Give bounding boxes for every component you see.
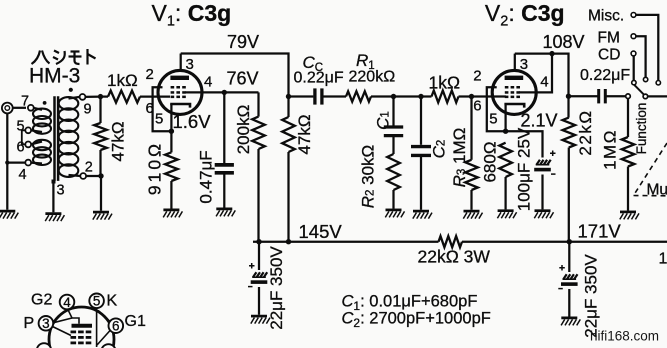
wire plate node to output cap xyxy=(569,95,598,97)
wire 910 to ground xyxy=(170,181,172,209)
svg-text:4: 4 xyxy=(19,167,27,183)
capacitor CC 0.22uF xyxy=(313,88,316,104)
wire cathode to bypass cap xyxy=(506,131,543,157)
input jack J1 xyxy=(2,103,13,114)
svg-text:V2: C3g: V2: C3g xyxy=(485,0,565,30)
basing pin 5 circle xyxy=(89,294,104,309)
capacitor 0.22uF output coupling xyxy=(597,89,600,103)
wire 79V plate rail xyxy=(181,54,289,97)
selector wiper arm xyxy=(634,85,643,94)
svg-text:0.47μF: 0.47μF xyxy=(197,150,216,203)
V1 pin 5 cathode lead xyxy=(170,104,172,152)
svg-text:0.22μF: 0.22μF xyxy=(580,67,630,84)
ground (C2) xyxy=(413,210,429,213)
basing pin 3 circle xyxy=(39,316,54,331)
terminal 2 xyxy=(80,173,86,179)
wire jack ground drop xyxy=(6,113,8,209)
ground (V2 cathode) xyxy=(498,209,514,212)
capacitor 22uF 350V filter (171V) xyxy=(559,265,565,271)
svg-text:220kΩ: 220kΩ xyxy=(349,69,396,86)
svg-text:G2: G2 xyxy=(31,292,52,309)
basing lead pin3 xyxy=(53,318,72,323)
svg-text:Misc.: Misc. xyxy=(588,8,624,25)
svg-text:R3 1MΩ: R3 1MΩ xyxy=(449,128,468,188)
wire C2 node to 1k xyxy=(421,95,432,97)
transformer T1 secondary phasing dot xyxy=(69,88,73,92)
resistor 680 cathode V2 xyxy=(499,143,512,177)
stub winding to terminal 9 xyxy=(69,97,80,99)
ground (R2) xyxy=(386,209,402,212)
resistor 47k secondary load xyxy=(94,123,107,150)
capacitor 22uF 350V filter (145V) xyxy=(249,263,255,269)
resistor 47k plate load V1 xyxy=(282,117,295,152)
stub winding to terminal 2 xyxy=(69,175,81,176)
wire plate node to CC xyxy=(289,95,314,97)
stub terminal 5 to winding xyxy=(31,130,42,132)
svg-text:1kΩ: 1kΩ xyxy=(107,71,138,90)
V2 pin 2/shield bracket xyxy=(487,87,506,131)
transformer T1 primary phasing dot xyxy=(43,101,47,105)
wire CD to contact xyxy=(633,56,635,80)
basing pin 2 circle (cut off) xyxy=(37,343,52,348)
wire terminal 9 to node xyxy=(85,95,100,98)
svg-text:R2 30kΩ: R2 30kΩ xyxy=(358,145,377,209)
svg-text:2: 2 xyxy=(473,68,481,85)
ground (V2 bypass) xyxy=(535,209,551,212)
basing lead pin6 lower xyxy=(97,330,111,345)
svg-text:Mu: Mu xyxy=(647,182,667,199)
transformer T1 secondary winding xyxy=(59,97,79,110)
resistor 1M selector load xyxy=(622,137,635,167)
wire 1k to V1 grid xyxy=(140,95,170,97)
V2 pin 5 cathode lead xyxy=(504,104,506,131)
svg-text:6: 6 xyxy=(112,319,120,334)
wire 145V rail to filter cap xyxy=(258,242,260,270)
wire 171V rail xyxy=(462,241,667,243)
wire node to 1k resistor xyxy=(101,95,109,97)
ground (secondary return) xyxy=(93,211,109,214)
jumper terminal 5 to 6 xyxy=(22,130,26,144)
wire FM to contact xyxy=(636,36,646,77)
svg-text:47kΩ: 47kΩ xyxy=(109,121,128,161)
basing lead pin3 lower xyxy=(53,327,72,336)
tube basing diagram envelope xyxy=(49,307,114,348)
wire screen node corner down xyxy=(257,92,259,116)
node 145V filter junction xyxy=(256,239,261,244)
basing pin 6 circle xyxy=(109,318,124,333)
wire R load to terminal2 node xyxy=(99,150,101,176)
node C2 top xyxy=(418,94,423,99)
wire screen node to bypass cap xyxy=(223,92,225,163)
wire 171V rail to filter cap xyxy=(568,242,570,272)
svg-text:1.6V: 1.6V xyxy=(173,111,212,132)
input terminal Misc xyxy=(631,13,636,18)
basing pin 4 circle xyxy=(60,295,75,310)
svg-text:V1: C3g: V1: C3g xyxy=(152,0,232,30)
wire 1k to R3 node xyxy=(459,95,472,97)
input terminal FM xyxy=(631,34,636,39)
wire 200k to 145V rail xyxy=(257,149,259,242)
wire R2 to ground xyxy=(392,190,394,209)
svg-text:76V: 76V xyxy=(227,68,259,88)
ground (171V filter) xyxy=(561,317,577,320)
node V1 screen junction xyxy=(222,90,227,95)
node R3 top xyxy=(469,94,474,99)
V1 pin 3 plate lead xyxy=(180,54,182,71)
selector throw contact CD xyxy=(632,80,636,84)
wire C2 node down xyxy=(420,97,422,145)
svg-text:680Ω: 680Ω xyxy=(481,141,500,182)
svg-text:G1: G1 xyxy=(125,313,146,330)
svg-text:FM: FM xyxy=(598,30,620,47)
wire 1M to ground xyxy=(627,167,629,211)
node V1 plate/coupling junction xyxy=(286,94,291,99)
svg-text:C2: 2700pF+1000pF: C2: 2700pF+1000pF xyxy=(342,310,491,331)
wire terminal 2 to node xyxy=(86,175,101,177)
wire jack to terminal 7 xyxy=(13,107,26,109)
ground (selector load) xyxy=(620,211,636,214)
wire filter cap to ground xyxy=(568,289,570,317)
ground (145V filter) xyxy=(251,315,267,318)
wire node A to C1 xyxy=(392,97,394,126)
wire C1 to R2 xyxy=(392,136,394,154)
svg-text:171V: 171V xyxy=(578,221,622,242)
resistor R1 220k xyxy=(346,91,371,101)
svg-text:100μF 25V: 100μF 25V xyxy=(515,127,534,211)
terminal 3 shield tap xyxy=(52,180,56,184)
node screen tie on 108V rail xyxy=(549,51,554,56)
node plate load junction (145V) xyxy=(286,239,291,244)
capacitor C2 xyxy=(411,145,431,148)
basing lead pin6 upper xyxy=(98,311,110,322)
svg-text:22kΩ: 22kΩ xyxy=(576,109,595,155)
basing lead pin4 xyxy=(68,309,79,324)
selector throw contact FM xyxy=(643,77,647,81)
capacitor 100uF 25V cathode bypass xyxy=(550,151,556,157)
svg-text:22μF 350V: 22μF 350V xyxy=(267,246,286,330)
resistor 1k grid stopper V2 xyxy=(432,91,459,103)
wire node A to C2 node xyxy=(394,95,422,97)
tube V1 (C3g pentode) xyxy=(158,70,202,114)
resistor 22k 3W dropper xyxy=(439,236,463,247)
svg-text:3: 3 xyxy=(186,56,194,73)
basing lead pin5 xyxy=(96,308,98,347)
terminal 5 xyxy=(25,127,31,133)
svg-text:6: 6 xyxy=(17,140,25,156)
wire bypass to ground xyxy=(541,175,543,210)
resistor 22k plate load V2 xyxy=(563,118,576,148)
ground (transformer shield) xyxy=(45,212,61,215)
svg-text:3: 3 xyxy=(57,183,65,199)
resistor 200k screen feed xyxy=(252,117,265,149)
svg-text:4: 4 xyxy=(540,74,548,91)
wire output cap to selector xyxy=(606,95,625,97)
wire bypass cap to ground xyxy=(223,174,225,207)
svg-text:5: 5 xyxy=(489,111,497,128)
svg-text:Function: Function xyxy=(634,103,649,155)
ground (V1 cathode) xyxy=(163,209,179,212)
svg-text:HM-3: HM-3 xyxy=(29,65,80,88)
svg-text:1: 1 xyxy=(659,251,667,268)
wire to V2 grid xyxy=(472,95,507,97)
wire C2 to ground xyxy=(420,155,422,209)
dashed gang link to muting switch xyxy=(634,143,667,196)
wire pole A down to 1M xyxy=(627,99,629,137)
basing internal plate bar xyxy=(72,324,93,328)
selector throw contact Misc xyxy=(656,81,660,85)
svg-text:2.1V: 2.1V xyxy=(521,111,558,131)
node secondary top xyxy=(98,94,103,99)
wire 145V rail xyxy=(253,241,439,243)
wire R3 to ground xyxy=(470,190,472,210)
node A (EQ network top) xyxy=(391,94,396,99)
node jack/terminal4 junction xyxy=(5,161,9,165)
stub terminal 4 to winding xyxy=(31,161,42,164)
svg-text:79V: 79V xyxy=(227,32,259,52)
stub terminal 7 to winding xyxy=(33,108,42,110)
svg-text:K: K xyxy=(107,293,118,310)
svg-text:9: 9 xyxy=(84,102,92,118)
svg-text:108V: 108V xyxy=(543,32,585,52)
ground (input jack) xyxy=(0,210,15,213)
wire selector output xyxy=(648,95,667,97)
node 171V filter junction xyxy=(567,239,572,244)
wire 22k to 171V rail xyxy=(568,148,570,242)
svg-text:CD: CD xyxy=(598,47,620,64)
svg-text:910Ω: 910Ω xyxy=(145,141,165,195)
wire node down to R load xyxy=(99,97,101,123)
transformer T1 core xyxy=(53,96,56,181)
stub terminal 6 to winding xyxy=(31,142,42,145)
svg-text:hifi168.com: hifi168.com xyxy=(590,329,659,344)
capacitor C1 xyxy=(384,125,403,128)
svg-text:6: 6 xyxy=(473,98,481,115)
selector pole contact A xyxy=(626,94,631,99)
wire node to ground xyxy=(100,176,102,211)
terminal 7 xyxy=(28,105,34,111)
wire 47k to 145V rail xyxy=(287,152,289,242)
svg-text:200kΩ: 200kΩ xyxy=(234,105,253,155)
transformer T1 primary windings xyxy=(33,109,51,119)
svg-text:4: 4 xyxy=(63,295,71,310)
terminal 6 xyxy=(25,142,31,148)
wire plate node down to 47k xyxy=(287,97,289,118)
svg-text:5: 5 xyxy=(17,119,25,135)
tube V2 (C3g pentode) xyxy=(492,70,536,114)
node terminal 2 junction xyxy=(98,173,103,178)
V2 pin 3 plate lead xyxy=(514,54,516,71)
svg-text:5: 5 xyxy=(93,294,101,309)
V1 pin 2/shield bracket xyxy=(153,87,172,131)
svg-text:3: 3 xyxy=(42,316,50,331)
wire shield to ground xyxy=(52,183,54,212)
wire terminal 4 to ground line xyxy=(7,161,25,163)
V1 pin 4 screen lead xyxy=(185,91,258,93)
wire plate node down to 22k xyxy=(567,96,569,117)
wire R3 node down xyxy=(470,97,472,160)
ground (screen bypass) xyxy=(216,208,232,211)
svg-text:6: 6 xyxy=(146,100,154,117)
svg-text:1MΩ: 1MΩ xyxy=(601,129,620,170)
svg-text:5: 5 xyxy=(155,111,163,128)
svg-text:P: P xyxy=(24,315,35,332)
transformer T1 name label: Hashimoto (katakana) xyxy=(32,51,41,65)
svg-text:22kΩ 3W: 22kΩ 3W xyxy=(418,247,491,267)
basing internal grid dashes xyxy=(71,331,77,334)
input terminal CD xyxy=(631,51,636,56)
capacitor 0.47uF screen bypass xyxy=(215,163,234,167)
terminal 9 xyxy=(80,94,86,100)
node V2 cathode/shield junction xyxy=(503,129,508,134)
V2 pin 4 screen tie to plate xyxy=(519,54,552,93)
node V1 cathode/shield junction xyxy=(169,129,174,134)
wire R1 to node A xyxy=(371,95,394,97)
svg-text:0.22μF: 0.22μF xyxy=(294,70,344,87)
basing pin 7 circle (cut off) xyxy=(101,344,116,348)
ground (R3) xyxy=(464,210,480,213)
wire Misc to contact xyxy=(636,15,658,81)
resistor R3 1M grid leak V2 xyxy=(465,160,478,190)
resistor 910 cathode V1 xyxy=(165,152,178,181)
node V2 plate/output junction xyxy=(566,94,571,99)
svg-text:2: 2 xyxy=(146,66,154,83)
svg-text:4: 4 xyxy=(204,74,212,91)
wire 108V plate rail xyxy=(515,54,569,97)
resistor R2 30k xyxy=(387,154,400,190)
wire 680 to ground xyxy=(504,177,506,209)
selector pole contact B xyxy=(643,94,648,99)
terminal 4 xyxy=(25,160,31,166)
svg-text:145V: 145V xyxy=(299,221,343,242)
wire filter cap to ground xyxy=(258,287,260,315)
resistor 1k grid stopper V1 xyxy=(108,91,140,103)
svg-text:7: 7 xyxy=(21,94,29,110)
wire CC to R1 xyxy=(323,95,346,97)
svg-text:3: 3 xyxy=(520,56,528,73)
svg-text:2: 2 xyxy=(85,160,93,176)
svg-text:22μF 350V: 22μF 350V xyxy=(582,254,601,338)
svg-text:47kΩ: 47kΩ xyxy=(295,114,314,154)
